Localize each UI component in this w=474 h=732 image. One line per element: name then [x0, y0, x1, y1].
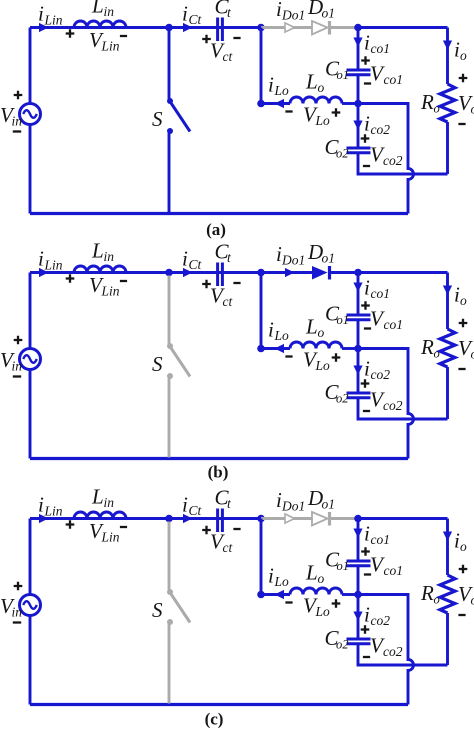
plus sign of Vco2 (a) [361, 134, 370, 143]
circuit state (c): switch off, diode off [0, 485, 474, 729]
resistor Ro (a) [440, 84, 455, 122]
svg-text:in: in [104, 4, 115, 19]
node: Lo row left junction (c) [257, 591, 265, 599]
svg-text:Lo: Lo [315, 604, 331, 619]
wire: diode branch left (a) [261, 26, 312, 29]
svg-text:Do1: Do1 [281, 253, 305, 268]
wire: top rail right segment node-to-Ro corner (c) [358, 517, 448, 520]
current arrow iDo1 (b) [285, 268, 295, 277]
svg-text:o1: o1 [322, 251, 336, 266]
wire: top rail right segment node-to-Ro corner (b) [358, 271, 448, 274]
node: Lo-Co1-Co2 middle junction (b) [354, 345, 362, 353]
wire: top rail left segment (b) [30, 271, 261, 274]
svg-text:Ct: Ct [189, 257, 203, 272]
wire: Ct-node to Lo row (c) [260, 519, 263, 595]
svg-text:co2: co2 [371, 367, 391, 382]
minus sign of Vco2 (c) [363, 656, 370, 658]
plus sign of Vin (b) [14, 336, 23, 345]
svg-text:o: o [434, 347, 440, 361]
svg-text:o: o [318, 325, 325, 340]
current arrow iLin (a) [39, 23, 49, 32]
wire: switch branch upper (c) [168, 522, 171, 591]
inductor Lin (c) [74, 512, 126, 519]
switch S top contact (b) [167, 343, 173, 349]
capacitor Co2 (b) [347, 393, 371, 398]
wire: Co1 column lower (b) [357, 320, 360, 349]
current arrow iLo (b) [275, 344, 285, 353]
svg-text:i: i [182, 493, 188, 517]
svg-text:Lo: Lo [274, 328, 290, 343]
svg-text:in: in [104, 495, 115, 510]
wire: diode branch left (b) [261, 271, 312, 274]
svg-text:Do1: Do1 [281, 8, 305, 23]
svg-text:Lo: Lo [315, 113, 331, 128]
svg-text:i: i [364, 112, 370, 136]
svg-text:o: o [471, 347, 474, 362]
svg-text:Lin: Lin [101, 284, 120, 299]
wire: Lo row right stub (c) [342, 593, 358, 596]
svg-text:i: i [268, 318, 274, 342]
inductor Lin (b) [74, 266, 126, 273]
current arrow iLin (b) [39, 268, 49, 277]
svg-text:S: S [152, 598, 163, 622]
switch S bottom contact (a) [167, 128, 173, 134]
circuit state (b): switch off, diode conducting [0, 239, 474, 482]
plus sign of VLin (c) [66, 520, 75, 529]
svg-text:i: i [38, 493, 44, 517]
plus sign of Vct (b) [202, 280, 211, 289]
wire: Co2 bottom to load return (b) [358, 398, 448, 419]
current arrow iCt (b) [183, 268, 193, 277]
svg-text:o: o [460, 48, 467, 63]
svg-text:co2: co2 [383, 153, 403, 168]
node: Ct-diode junction (c) [257, 515, 265, 523]
minus sign of Vct (b) [233, 282, 240, 284]
minus sign of Vco1 (b) [364, 327, 371, 329]
current arrow ico2 (c) [353, 612, 362, 622]
minus sign of Vco1 (a) [364, 82, 371, 84]
capacitor Co2 (a) [347, 148, 371, 153]
minus sign of Vct (a) [233, 37, 240, 39]
switch S blade (c) [171, 594, 190, 623]
svg-text:L: L [305, 561, 318, 585]
resistor Ro (b) [440, 329, 455, 367]
current arrow iLo (a) [275, 99, 285, 108]
svg-text:L: L [305, 315, 318, 339]
svg-text:o: o [471, 593, 474, 608]
minus sign of Vo (a) [458, 123, 465, 125]
svg-text:o2: o2 [336, 392, 349, 406]
wire: Co1 column upper (b) [357, 273, 360, 316]
capacitor Co2 (c) [347, 639, 371, 644]
svg-text:co1: co1 [371, 532, 391, 547]
svg-text:o1: o1 [337, 313, 350, 327]
current arrow ico1 (b) [353, 283, 362, 293]
minus sign of VLin (a) [120, 35, 127, 37]
wire: Ct-node to Lo row (b) [260, 273, 263, 349]
switch S blade (a) [171, 103, 190, 132]
svg-text:(c): (c) [205, 710, 224, 729]
minus sign of VLo (b) [285, 355, 292, 357]
wire: right rail lower (a) [446, 122, 449, 174]
wire: middle node to bottom rail with crossover hop (a) [358, 104, 414, 214]
node: Lo-Co1-Co2 middle junction (c) [354, 591, 362, 599]
wire: Co2 column upper (c) [357, 595, 360, 640]
wire: Co2 bottom to load return (c) [358, 644, 448, 665]
source Vin (a) [20, 104, 41, 125]
resistor Ro (c) [440, 575, 455, 613]
inductor Lo (a) [290, 97, 342, 103]
wire: Co2 column upper (a) [357, 104, 360, 149]
source Vin (b) [20, 349, 41, 370]
switch S top contact (a) [167, 98, 173, 104]
wire: switch branch lower (c) [168, 624, 171, 704]
current arrow iCt (a) [183, 23, 193, 32]
current arrow io (a) [443, 41, 452, 51]
minus sign of VLo (c) [285, 601, 292, 603]
svg-text:o: o [460, 293, 467, 308]
svg-text:in: in [104, 249, 115, 264]
plus sign of VLo (c) [332, 599, 341, 608]
svg-text:o: o [471, 102, 474, 117]
wire: left rail (c) [29, 519, 32, 705]
wire: Lo row right stub (a) [342, 102, 358, 105]
plus sign of Vct (a) [202, 35, 211, 44]
wire: switch branch upper (b) [168, 276, 171, 345]
node: Lo-Co1-Co2 middle junction (a) [354, 100, 362, 108]
svg-text:o1: o1 [322, 6, 336, 21]
wire: left rail (a) [29, 28, 32, 214]
node: top rail / switch junction (c) [165, 515, 173, 523]
svg-text:(a): (a) [206, 220, 226, 239]
circuit state (a): switch conducting, diode off [0, 0, 474, 239]
wire: Co1 column lower (a) [357, 75, 360, 104]
wire: diode branch right (c) [331, 517, 358, 520]
wire: right rail lower (c) [446, 613, 449, 665]
capacitor Co1 (b) [347, 315, 371, 320]
svg-text:L: L [91, 239, 104, 263]
capacitor Ct (c) [218, 509, 223, 533]
svg-text:i: i [364, 31, 370, 55]
svg-text:co1: co1 [384, 72, 404, 87]
wire: Lo row right stub (b) [342, 347, 358, 350]
svg-text:o: o [434, 593, 440, 607]
svg-text:Lo: Lo [315, 358, 331, 373]
svg-text:Lin: Lin [44, 13, 63, 28]
plus sign of Vco1 (b) [361, 301, 370, 310]
node: diode-Co1 top junction (c) [354, 515, 362, 523]
svg-text:o: o [460, 539, 467, 554]
plus sign of VLo (a) [332, 108, 341, 117]
wire: Co1 column upper (c) [357, 519, 360, 562]
svg-text:Do1: Do1 [281, 499, 305, 514]
wire: top rail left segment (a) [30, 26, 261, 29]
svg-text:L: L [91, 0, 104, 18]
plus sign of Vco1 (a) [361, 56, 370, 65]
plus sign of VLo (b) [332, 353, 341, 362]
wire: top rail left segment (c) [30, 517, 261, 520]
wire: Ct-node to Lo row (a) [260, 28, 263, 104]
current arrow io (b) [443, 286, 452, 296]
svg-text:co1: co1 [371, 286, 391, 301]
svg-text:i: i [182, 247, 188, 271]
wire: switch branch upper (a) [168, 31, 171, 100]
svg-text:in: in [12, 359, 23, 374]
capacitor Ct (a) [218, 18, 223, 42]
minus sign of Vin (c) [13, 621, 21, 623]
wire: left rail (b) [29, 273, 32, 459]
svg-text:R: R [420, 335, 434, 359]
minus sign of Vco1 (c) [364, 573, 371, 575]
svg-text:co2: co2 [383, 644, 403, 659]
inductor Lo (c) [290, 588, 342, 595]
wire: Co1 column lower (c) [357, 566, 360, 595]
svg-text:R: R [420, 581, 434, 605]
minus sign of Vo (b) [458, 368, 465, 370]
svg-text:o1: o1 [322, 497, 336, 512]
svg-text:Ct: Ct [189, 503, 203, 518]
svg-text:o1: o1 [337, 68, 350, 82]
current arrow ico2 (b) [353, 366, 362, 376]
node: diode-Co1 top junction (a) [354, 24, 362, 32]
svg-text:Lin: Lin [44, 258, 63, 273]
wire: Lo row left stub (a) [261, 102, 290, 105]
svg-text:i: i [38, 247, 44, 271]
current arrow iDo1 (c) [285, 514, 295, 523]
wire: diode branch left (c) [261, 517, 312, 520]
switch S bottom contact (c) [167, 619, 173, 625]
svg-text:co2: co2 [383, 398, 403, 413]
node: top rail / switch junction (a) [165, 24, 173, 32]
plus sign of Vo (b) [459, 319, 468, 328]
svg-text:o2: o2 [336, 638, 349, 652]
node: diode-Co1 top junction (b) [354, 269, 362, 277]
capacitor Co1 (c) [347, 561, 371, 566]
svg-text:Lin: Lin [44, 504, 63, 519]
svg-text:i: i [364, 603, 370, 627]
wire: bottom rail (b) [30, 457, 408, 460]
svg-text:i: i [364, 357, 370, 381]
plus sign of Vo (c) [459, 565, 468, 574]
wire: diode branch right (b) [331, 271, 358, 274]
svg-text:co1: co1 [384, 563, 404, 578]
wire: Co2 bottom to load return (a) [358, 153, 448, 174]
wire: top rail right segment node-to-Ro corner (a) [358, 26, 448, 29]
wire: right rail lower (b) [446, 367, 449, 419]
plus sign of VLin (b) [66, 274, 75, 283]
svg-text:o: o [318, 571, 325, 586]
capacitor Ct (b) [218, 263, 223, 287]
svg-text:Ct: Ct [189, 12, 203, 27]
capacitor Co1 (a) [347, 70, 371, 75]
wire: bottom rail (c) [30, 703, 408, 706]
svg-text:S: S [152, 107, 163, 131]
svg-text:co1: co1 [371, 41, 391, 56]
svg-text:i: i [364, 522, 370, 546]
wire: Lo row left stub (b) [261, 347, 290, 350]
current arrow iDo1 (a) [285, 23, 295, 32]
wire: Lo row left stub (c) [261, 593, 290, 596]
current arrow iLo (c) [275, 590, 285, 599]
svg-text:o1: o1 [337, 559, 350, 573]
svg-text:i: i [38, 2, 44, 26]
plus sign of Vin (c) [14, 582, 23, 591]
wire: switch branch lower (a) [168, 133, 171, 213]
current arrow ico2 (a) [353, 121, 362, 131]
inductor Lin (a) [74, 21, 126, 28]
plus sign of Vct (c) [202, 526, 211, 535]
svg-text:Lin: Lin [101, 39, 120, 54]
wire: right rail upper (c) [446, 519, 449, 576]
svg-text:R: R [420, 90, 434, 114]
wire: switch branch lower (b) [168, 378, 171, 458]
current arrow iCt (c) [183, 514, 193, 523]
svg-text:ct: ct [223, 294, 234, 309]
source Vin (c) [20, 595, 41, 616]
svg-text:S: S [152, 352, 163, 376]
svg-text:co2: co2 [371, 613, 391, 628]
diode Do1 (b) [312, 266, 330, 280]
svg-text:o2: o2 [336, 147, 349, 161]
minus sign of Vin (a) [13, 130, 21, 132]
svg-text:(b): (b) [208, 463, 229, 482]
minus sign of Vo (c) [458, 614, 465, 616]
svg-text:Lin: Lin [101, 530, 120, 545]
wire: bottom rail (a) [30, 212, 408, 215]
node: Lo row left junction (b) [257, 345, 265, 353]
wire: diode branch right (a) [331, 26, 358, 29]
minus sign of VLo (a) [285, 110, 292, 112]
wire: Co1 column upper (a) [357, 28, 360, 71]
node: top rail / switch junction (b) [165, 269, 173, 277]
svg-text:co1: co1 [384, 317, 404, 332]
plus sign of Vin (a) [14, 91, 23, 100]
plus sign of Vco1 (c) [361, 547, 370, 556]
node: Lo row left junction (a) [257, 100, 265, 108]
current arrow iLin (c) [39, 514, 49, 523]
plus sign of Vco2 (b) [361, 379, 370, 388]
current arrow io (c) [443, 532, 452, 542]
node: Ct-diode junction (b) [257, 269, 265, 277]
wire: middle node to bottom rail with crossover hop (b) [358, 349, 414, 459]
switch S top contact (c) [167, 589, 173, 595]
minus sign of Vin (b) [13, 375, 21, 377]
svg-text:in: in [12, 605, 23, 620]
diode Do1 (a) [312, 21, 330, 35]
svg-text:o: o [318, 80, 325, 95]
svg-text:i: i [364, 276, 370, 300]
minus sign of VLin (b) [120, 280, 127, 282]
switch S blade (b) [171, 348, 190, 377]
svg-text:ct: ct [223, 540, 234, 555]
wire: Co2 column upper (b) [357, 349, 360, 394]
svg-text:Lo: Lo [274, 574, 290, 589]
node: Ct-diode junction (a) [257, 24, 265, 32]
svg-text:Lo: Lo [274, 83, 290, 98]
minus sign of Vco2 (b) [363, 410, 370, 412]
minus sign of Vct (c) [233, 528, 240, 530]
svg-text:L: L [305, 70, 318, 94]
current arrow ico1 (a) [353, 38, 362, 48]
plus sign of Vo (a) [459, 74, 468, 83]
wire: middle node to bottom rail with crossover hop (c) [358, 595, 414, 705]
switch S bottom contact (b) [167, 373, 173, 379]
diode Do1 (c) [312, 512, 330, 526]
svg-text:ct: ct [223, 49, 234, 64]
wire: right rail upper (a) [446, 28, 449, 85]
svg-text:co2: co2 [371, 122, 391, 137]
svg-text:i: i [268, 73, 274, 97]
minus sign of VLin (c) [120, 526, 127, 528]
svg-text:L: L [91, 485, 104, 509]
svg-text:i: i [268, 564, 274, 588]
svg-text:in: in [12, 114, 23, 129]
plus sign of Vco2 (c) [361, 625, 370, 634]
svg-text:o: o [434, 102, 440, 116]
plus sign of VLin (a) [66, 29, 75, 38]
current arrow ico1 (c) [353, 529, 362, 539]
inductor Lo (b) [290, 342, 342, 349]
svg-text:i: i [182, 2, 188, 26]
minus sign of Vco2 (a) [363, 165, 370, 167]
wire: right rail upper (b) [446, 273, 449, 330]
